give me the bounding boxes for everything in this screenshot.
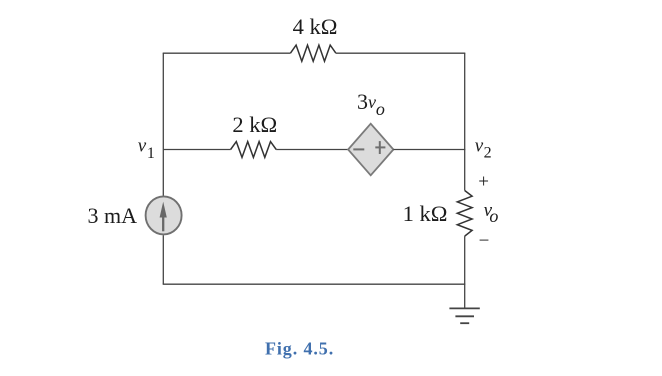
svg-text:−: − xyxy=(479,231,490,252)
label 4 kOhm xyxy=(293,14,338,39)
resistor 4 kOhm zigzag xyxy=(290,45,336,61)
wire right vertical (top rail to v2 node) xyxy=(464,53,466,149)
svg-text:Fig. 4.5.: Fig. 4.5. xyxy=(265,339,334,359)
svg-text:3: 3 xyxy=(357,89,368,114)
svg-text:1 kΩ: 1 kΩ xyxy=(403,201,448,226)
caption Fig. 4.5. xyxy=(265,339,334,359)
wire ground stem xyxy=(464,284,466,308)
wire right vertical (1k resistor to bottom rail) xyxy=(464,236,466,284)
dependent source U1 diamond (3vo controlled voltage source) xyxy=(348,124,393,176)
wire right vertical (v2 node to 1k resistor) xyxy=(464,150,466,191)
node v2 label xyxy=(475,135,492,161)
svg-text:1: 1 xyxy=(147,145,155,162)
wire top rail left segment xyxy=(163,52,291,54)
polarity plus for vo xyxy=(478,172,489,193)
svg-text:3 mA: 3 mA xyxy=(88,203,138,228)
label 3 vo xyxy=(357,89,385,119)
wire middle rail from 2k resistor to dependent source xyxy=(276,149,348,151)
label 2 kOhm xyxy=(232,112,277,137)
wire top rail right segment xyxy=(336,52,465,54)
wire middle rail from v1 to 2k resistor xyxy=(163,149,230,151)
svg-text:o: o xyxy=(376,99,385,119)
ground xyxy=(449,308,479,323)
wire bottom rail xyxy=(163,283,466,285)
svg-text:2: 2 xyxy=(484,145,492,162)
svg-text:4 kΩ: 4 kΩ xyxy=(293,14,338,39)
svg-text:v: v xyxy=(138,136,147,157)
svg-text:o: o xyxy=(489,206,498,226)
node v1 label xyxy=(138,136,155,162)
svg-text:2 kΩ: 2 kΩ xyxy=(232,112,277,137)
polarity minus for vo xyxy=(479,231,490,252)
resistor 1 kOhm vertical zigzag xyxy=(457,191,472,237)
label vo output voltage xyxy=(484,200,499,226)
resistor 2 kOhm zigzag xyxy=(231,142,277,158)
label 1 kOhm xyxy=(403,201,448,226)
wire left vertical (source bottom to bottom rail) xyxy=(162,235,164,284)
svg-text:+: + xyxy=(478,172,489,193)
current source I1 3 mA xyxy=(146,196,182,234)
wire left vertical (v1 node to source top) xyxy=(162,53,164,197)
label 3 mA xyxy=(88,203,138,228)
svg-text:v: v xyxy=(368,92,376,112)
wire middle rail from dependent source to v2 xyxy=(393,149,465,151)
svg-text:v: v xyxy=(475,135,484,156)
